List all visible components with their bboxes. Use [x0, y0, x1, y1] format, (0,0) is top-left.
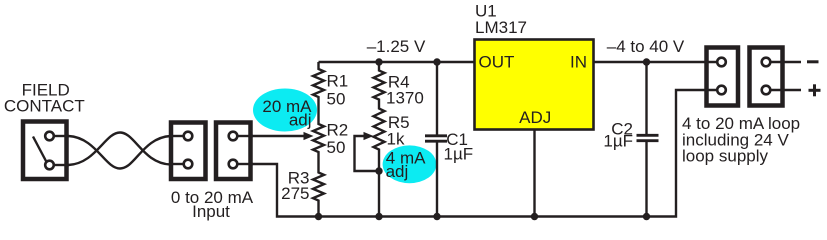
svg-text:R2: R2 [327, 120, 349, 139]
field contact box S1 [23, 122, 67, 180]
svg-text:50: 50 [327, 89, 346, 108]
capacitor C2 wire top [645, 62, 647, 134]
capacitor C1 plates [425, 134, 447, 137]
terminal box1 top [184, 132, 193, 141]
switch lever [33, 137, 47, 163]
junction dot bottom R3 [315, 213, 322, 220]
svg-text:R1: R1 [327, 72, 349, 91]
capacitor C2 plates [637, 134, 659, 137]
junction dot bottom R5 [375, 213, 382, 220]
capacitor C1 wire bottom [436, 143, 438, 217]
terminal box1 bottom [184, 160, 193, 169]
arrowhead R2 wiper [304, 132, 314, 140]
wire stub field bottom [54, 164, 69, 166]
svg-text:275: 275 [281, 184, 309, 203]
field contact terminal bottom [45, 161, 54, 170]
svg-text:CONTACT: CONTACT [4, 97, 85, 116]
bottom rail wire [319, 90, 717, 217]
arrowhead R5 wiper [364, 132, 374, 140]
junction dot R5 wiper [375, 167, 382, 174]
resistor chain R4 R5 [374, 62, 385, 217]
wire loop plus [770, 89, 801, 91]
svg-text:1k: 1k [387, 129, 405, 148]
loop connector box left [707, 48, 739, 106]
terminal loop right top [762, 58, 771, 67]
wire loop minus [770, 61, 801, 63]
svg-text:1µF: 1µF [444, 144, 474, 163]
regulator U1 LM317 body [475, 40, 594, 130]
stub box1 bottom [169, 163, 184, 165]
wire input top to R2 wiper [251, 135, 304, 137]
stub box2 bottom [237, 163, 253, 165]
input connector box left [171, 123, 206, 180]
terminal box2 bottom [229, 160, 238, 169]
twisted pair wire A [69, 136, 171, 169]
IN pin wire to loop connector [594, 61, 716, 63]
svg-text:–1.25 V: –1.25 V [367, 37, 426, 56]
terminal loop left top [717, 58, 726, 67]
capacitor C1 wire top [436, 62, 438, 135]
svg-text:adj: adj [386, 162, 409, 181]
stub box1 top [169, 135, 184, 137]
svg-text:ADJ: ADJ [519, 108, 551, 127]
junction dot top rail R4 [375, 58, 382, 65]
junction dot top rail C1 [433, 58, 440, 65]
junction dot bottom ADJ [531, 213, 538, 220]
twisted pair wire B [69, 133, 171, 166]
svg-text:loop supply: loop supply [682, 147, 769, 166]
svg-text:OUT: OUT [479, 53, 515, 72]
junction dot bottom C2 [643, 213, 650, 220]
wire input bottom to ground rail [251, 164, 319, 217]
resistor chain R1 R2 R3 [313, 62, 324, 217]
terminal loop left bottom [717, 86, 726, 95]
capacitor C2 wire bottom [645, 142, 647, 217]
svg-text:IN: IN [570, 53, 587, 72]
minus sign [807, 60, 819, 63]
loop connector box right [750, 48, 783, 106]
junction dot bottom C1 [433, 213, 440, 220]
svg-text:LM317: LM317 [475, 18, 527, 37]
svg-text:Input: Input [192, 202, 230, 221]
highlight ellipse 20 mA adj [253, 89, 317, 132]
input connector box right [216, 123, 251, 180]
plus sign [809, 89, 821, 92]
svg-text:1370: 1370 [386, 88, 424, 107]
ADJ pin wire [533, 131, 535, 217]
R5 wiper wire [355, 136, 380, 171]
svg-text:50: 50 [327, 138, 346, 157]
svg-text:1µF: 1µF [603, 132, 633, 151]
wire stub field top [54, 135, 69, 137]
stub box2 top [237, 135, 253, 137]
terminal box2 top [229, 132, 238, 141]
field contact terminal top [45, 132, 54, 141]
junction dot IN rail C2 [643, 58, 650, 65]
highlight ellipse 4 mA adj [383, 145, 437, 183]
svg-text:–4 to 40 V: –4 to 40 V [607, 37, 685, 56]
top rail wire -1.25V [319, 61, 475, 63]
svg-text:adj: adj [289, 111, 312, 130]
terminal loop right bottom [762, 86, 771, 95]
